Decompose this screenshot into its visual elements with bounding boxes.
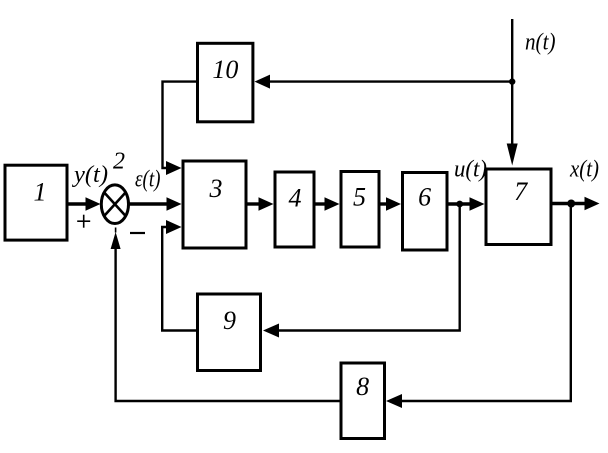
wire block7 to output x(t) <box>552 197 600 211</box>
block 1 <box>5 165 67 240</box>
svg-text:n(t): n(t) <box>525 30 556 56</box>
wire n(t) vertical into block7 <box>507 19 518 166</box>
wire block4 to block5 <box>315 197 340 211</box>
wire u(t) node down to block9 <box>263 204 460 338</box>
svg-text:10: 10 <box>212 55 238 84</box>
block 6 <box>403 173 448 251</box>
block 4 <box>275 172 314 247</box>
svg-text:1: 1 <box>34 178 47 207</box>
wire n to block10 <box>255 75 513 89</box>
wire block1 to summer <box>67 197 101 211</box>
wire block10 to block3 top input <box>163 82 197 175</box>
svg-text:7: 7 <box>514 177 528 206</box>
svg-text:9: 9 <box>223 306 236 335</box>
node n junction dot <box>509 78 515 84</box>
wire block3 to block4 <box>247 197 274 211</box>
svg-text:6: 6 <box>418 183 431 212</box>
node u(t) junction dot <box>456 201 463 208</box>
svg-text:2: 2 <box>113 148 125 174</box>
block 10 <box>198 43 253 122</box>
wire summer to block3 <box>129 197 182 211</box>
wire block5 to block6 <box>380 197 402 211</box>
block 7 <box>486 169 551 245</box>
wire block6 to block7 <box>448 197 485 211</box>
minus sign <box>130 232 145 234</box>
block 3 <box>183 161 246 248</box>
block 9 <box>198 294 261 371</box>
wire block8 to summer minus input <box>111 228 340 402</box>
svg-text:8: 8 <box>356 372 369 401</box>
summing junction 2 <box>101 185 128 224</box>
svg-text:u(t): u(t) <box>454 157 487 183</box>
wire block9 to block3 bottom input <box>162 220 196 331</box>
svg-text:4: 4 <box>289 184 302 213</box>
svg-text:y(t): y(t) <box>72 162 108 188</box>
svg-text:ε(t): ε(t) <box>135 167 161 193</box>
plus sign <box>77 215 90 228</box>
svg-text:3: 3 <box>209 174 223 203</box>
wire x(t) node down to block8 <box>386 204 571 409</box>
svg-text:x(t): x(t) <box>569 157 599 183</box>
node x(t) junction dot <box>567 200 575 208</box>
block 8 <box>341 363 385 439</box>
svg-text:5: 5 <box>353 183 366 212</box>
block 5 <box>341 172 379 248</box>
